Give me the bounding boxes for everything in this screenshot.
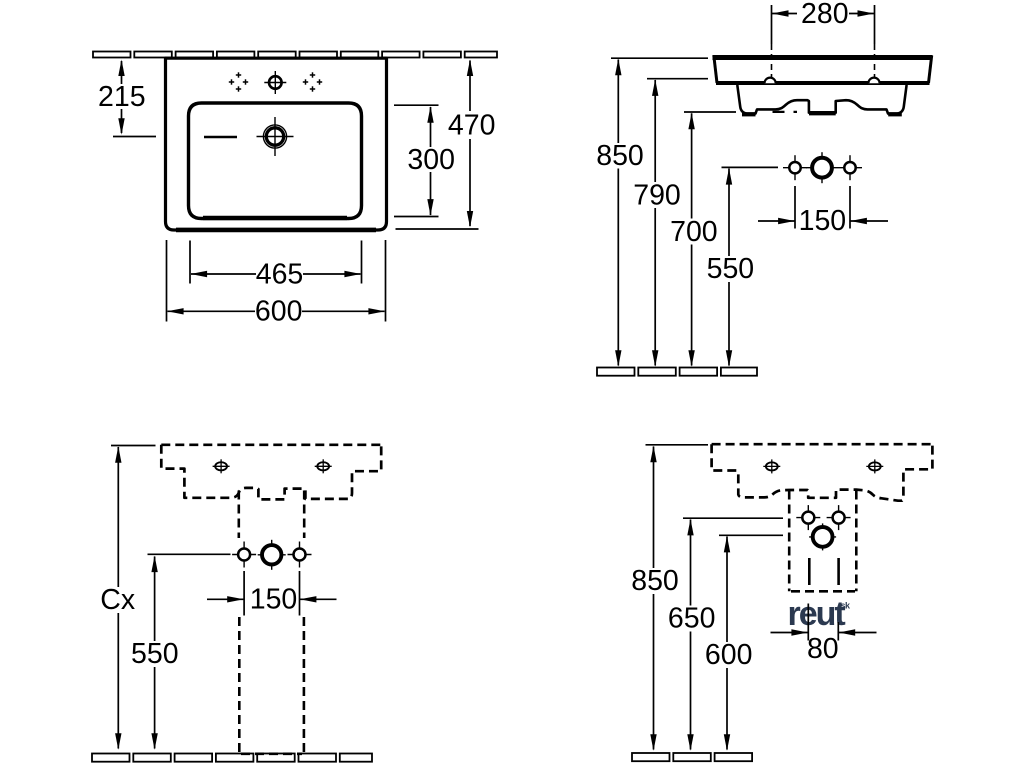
- svg-text:470: 470: [448, 109, 496, 141]
- svg-text:700: 700: [670, 216, 718, 248]
- svg-text:600: 600: [705, 639, 753, 671]
- svg-text:300: 300: [407, 144, 455, 176]
- svg-text:280: 280: [801, 0, 849, 30]
- svg-text:550: 550: [131, 638, 179, 670]
- svg-text:80: 80: [807, 633, 839, 665]
- svg-text:465: 465: [256, 258, 304, 290]
- svg-text:150: 150: [250, 583, 298, 615]
- svg-text:Cx: Cx: [100, 584, 135, 616]
- svg-text:650: 650: [668, 603, 716, 635]
- svg-text:150: 150: [799, 205, 847, 237]
- svg-text:reut: reut: [788, 595, 846, 633]
- svg-text:215: 215: [98, 81, 146, 113]
- svg-text:790: 790: [633, 179, 681, 211]
- svg-text:600: 600: [255, 296, 303, 328]
- svg-text:550: 550: [707, 253, 755, 285]
- svg-text:sk: sk: [841, 601, 852, 611]
- svg-text:850: 850: [631, 565, 679, 597]
- svg-text:850: 850: [596, 140, 644, 172]
